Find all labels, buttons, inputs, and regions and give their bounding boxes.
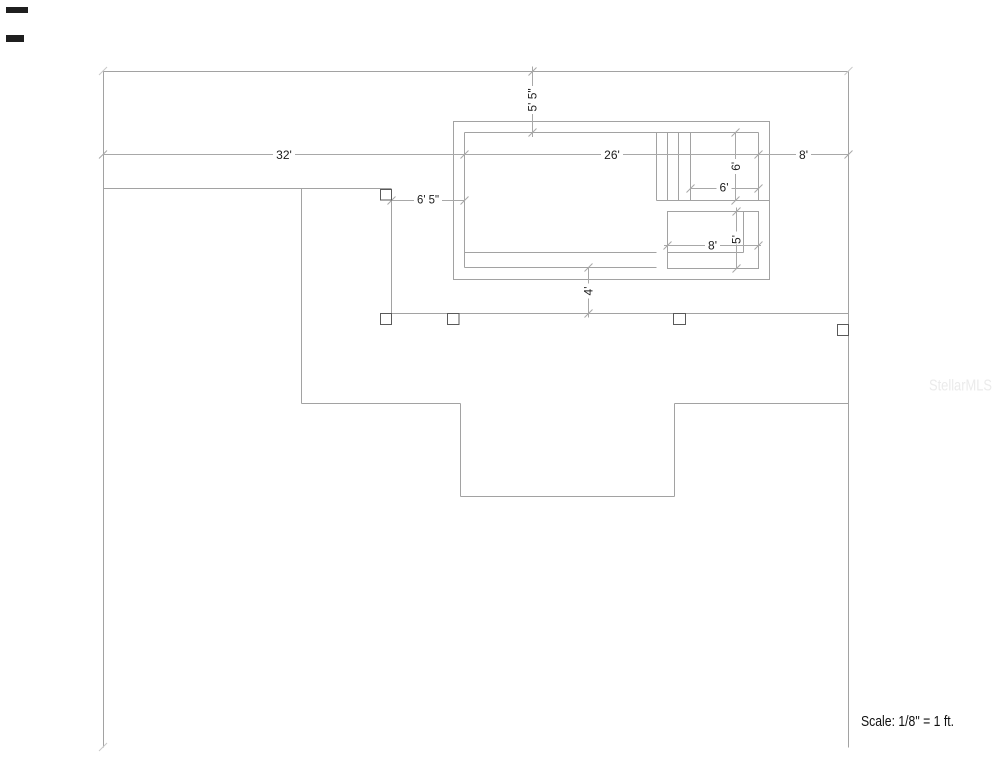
tick 4ft bottom (585, 310, 593, 318)
deck bottom edge (381, 313, 849, 315)
deck post P1 (381, 190, 392, 201)
tick 5ft spa top (733, 208, 741, 216)
spa inner vertical edge (743, 212, 745, 253)
pool inner right edge upper (758, 133, 760, 201)
tick 32 left (99, 151, 107, 159)
svg-text:8': 8' (708, 239, 717, 253)
svg-text:StellarMLS: StellarMLS (929, 378, 992, 395)
dimension line 4ft vertical (588, 268, 590, 318)
tick 6ft vertical top (732, 129, 740, 137)
house notch bottom wall (461, 496, 675, 498)
tick 4ft top (585, 264, 593, 272)
label halo 5ft spa rotated (730, 232, 742, 245)
property boundary top (104, 71, 849, 73)
svg-text:5' 5": 5' 5" (526, 88, 540, 111)
pool inner bottom edge (465, 267, 657, 269)
tick 8 right (845, 151, 853, 159)
dimension line 8ft spa (664, 245, 761, 247)
deck post P5 (838, 325, 849, 336)
corner tick top-right (845, 67, 853, 75)
house notch left wall (460, 404, 462, 497)
label halo 26ft (601, 148, 623, 161)
label halo 6ft5 (414, 193, 442, 206)
svg-text:Scale: 1/8" = 1 ft.: Scale: 1/8" = 1 ft. (861, 713, 954, 730)
corner tick top-left (99, 67, 107, 75)
pool step line 1 (656, 133, 658, 201)
spa inner horizontal edge (668, 252, 744, 254)
dimension line 6ft5 (392, 200, 465, 202)
label halo 32ft (273, 148, 295, 161)
tick 8ft spa right (755, 242, 763, 250)
tick 5ft5 top (529, 68, 537, 76)
label halo 6ft vertical rotated (730, 159, 742, 174)
pool step line 2 (667, 133, 669, 201)
property boundary right (848, 72, 850, 748)
tick 26/8 shared (755, 151, 763, 159)
pool step line 3 (678, 133, 680, 201)
label halo 4ft rotated (583, 284, 595, 299)
label halo 6ft horizontal (717, 182, 732, 195)
tick 6ft horizontal left (687, 185, 695, 193)
artifact dash 2 (6, 35, 24, 42)
deck left edge (391, 201, 393, 314)
pool inner left edge (464, 133, 466, 268)
dimension line 6ft vertical (735, 133, 737, 201)
house notch top-right wall (675, 403, 849, 405)
svg-text:8': 8' (799, 148, 808, 162)
tick 5ft spa bottom (733, 265, 741, 273)
svg-text:6': 6' (720, 181, 729, 195)
corner tick bottom-left (99, 743, 107, 751)
artifact dash 1 (6, 7, 28, 13)
dimension line 5ft5 vertical (532, 67, 534, 138)
pool inner top edge (465, 132, 759, 134)
svg-text:4': 4' (582, 287, 596, 296)
pool step line 4 (690, 133, 692, 201)
tick 6ft5 left (388, 197, 396, 205)
svg-text:5': 5' (729, 235, 743, 244)
dimension line 32/26/8 (103, 154, 849, 156)
house notch right wall (674, 404, 676, 497)
svg-text:26': 26' (604, 148, 620, 162)
label halo 5ft5 rotated (527, 86, 539, 114)
svg-text:32': 32' (276, 148, 292, 162)
tick 6ft5 right (461, 197, 469, 205)
pool bench line (465, 252, 657, 254)
tick 8ft spa left (664, 242, 672, 250)
label halo 8ft (796, 148, 811, 161)
deck post P3 (448, 314, 460, 325)
house notch top-left wall (302, 403, 461, 405)
deck post P2 (381, 314, 392, 325)
svg-text:6': 6' (729, 162, 743, 171)
house top wall (104, 188, 392, 190)
pool outer rect (454, 122, 770, 280)
dimension line 6ft horizontal (691, 188, 759, 190)
tick 32/26 shared (461, 151, 469, 159)
deck post P4 (674, 314, 686, 325)
label halo 8ft spa (705, 239, 720, 252)
tick 5ft5 bottom (529, 129, 537, 137)
tick 6ft horizontal right (755, 185, 763, 193)
tick 6ft vertical bottom (732, 197, 740, 205)
property boundary left (103, 72, 105, 748)
pool divider line (657, 200, 770, 202)
dimension line 5ft spa vertical (736, 208, 738, 269)
spa outer rect (668, 212, 759, 269)
svg-text:6' 5": 6' 5" (417, 193, 439, 207)
house left wall (301, 189, 303, 404)
